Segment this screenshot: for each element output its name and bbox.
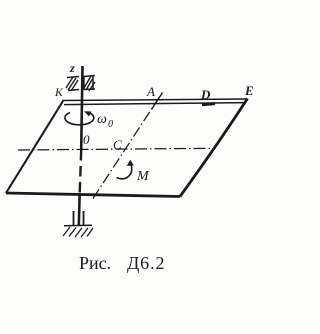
- moment M arrow: [117, 164, 132, 179]
- plate top far edge (upper line): [62, 99, 247, 101]
- diagonal axis through A and C: [93, 92, 163, 199]
- svg-text:C: C: [113, 137, 122, 152]
- omega_0 rotation arrow (ellipse around shaft): [65, 113, 94, 125]
- svg-text:D: D: [200, 87, 211, 102]
- thrust bearing socket walls: [73, 211, 75, 225]
- svg-text:z: z: [69, 61, 75, 75]
- plate right edge: [180, 99, 248, 197]
- svg-text:0: 0: [108, 119, 113, 130]
- plate top far edge (lower line): [64, 103, 246, 105]
- ground hatching: [63, 227, 93, 237]
- plate left edge: [6, 101, 63, 193]
- svg-text:M: M: [136, 169, 150, 184]
- svg-text:ω: ω: [97, 112, 107, 127]
- upper journal bearing: [66, 76, 95, 92]
- horizontal centerline through O and C: [18, 148, 213, 150]
- rotation axis hidden (dashed) part inside plate: [80, 150, 82, 193]
- shaft / rotation axis (solid upper part): [81, 66, 82, 150]
- D marker tick on top edge: [202, 104, 215, 105]
- svg-text:E: E: [244, 83, 254, 98]
- svg-text:Рис.Д6.2: Рис.Д6.2: [79, 253, 165, 273]
- rotation axis lower solid part: [78, 193, 81, 226]
- plate bottom near edge: [6, 193, 180, 197]
- diagonal axis solid crossing at A: [152, 93, 163, 110]
- svg-text:0: 0: [83, 132, 90, 147]
- svg-text:K: K: [54, 87, 64, 99]
- svg-text:A: A: [146, 84, 155, 99]
- ground line: [64, 224, 92, 227]
